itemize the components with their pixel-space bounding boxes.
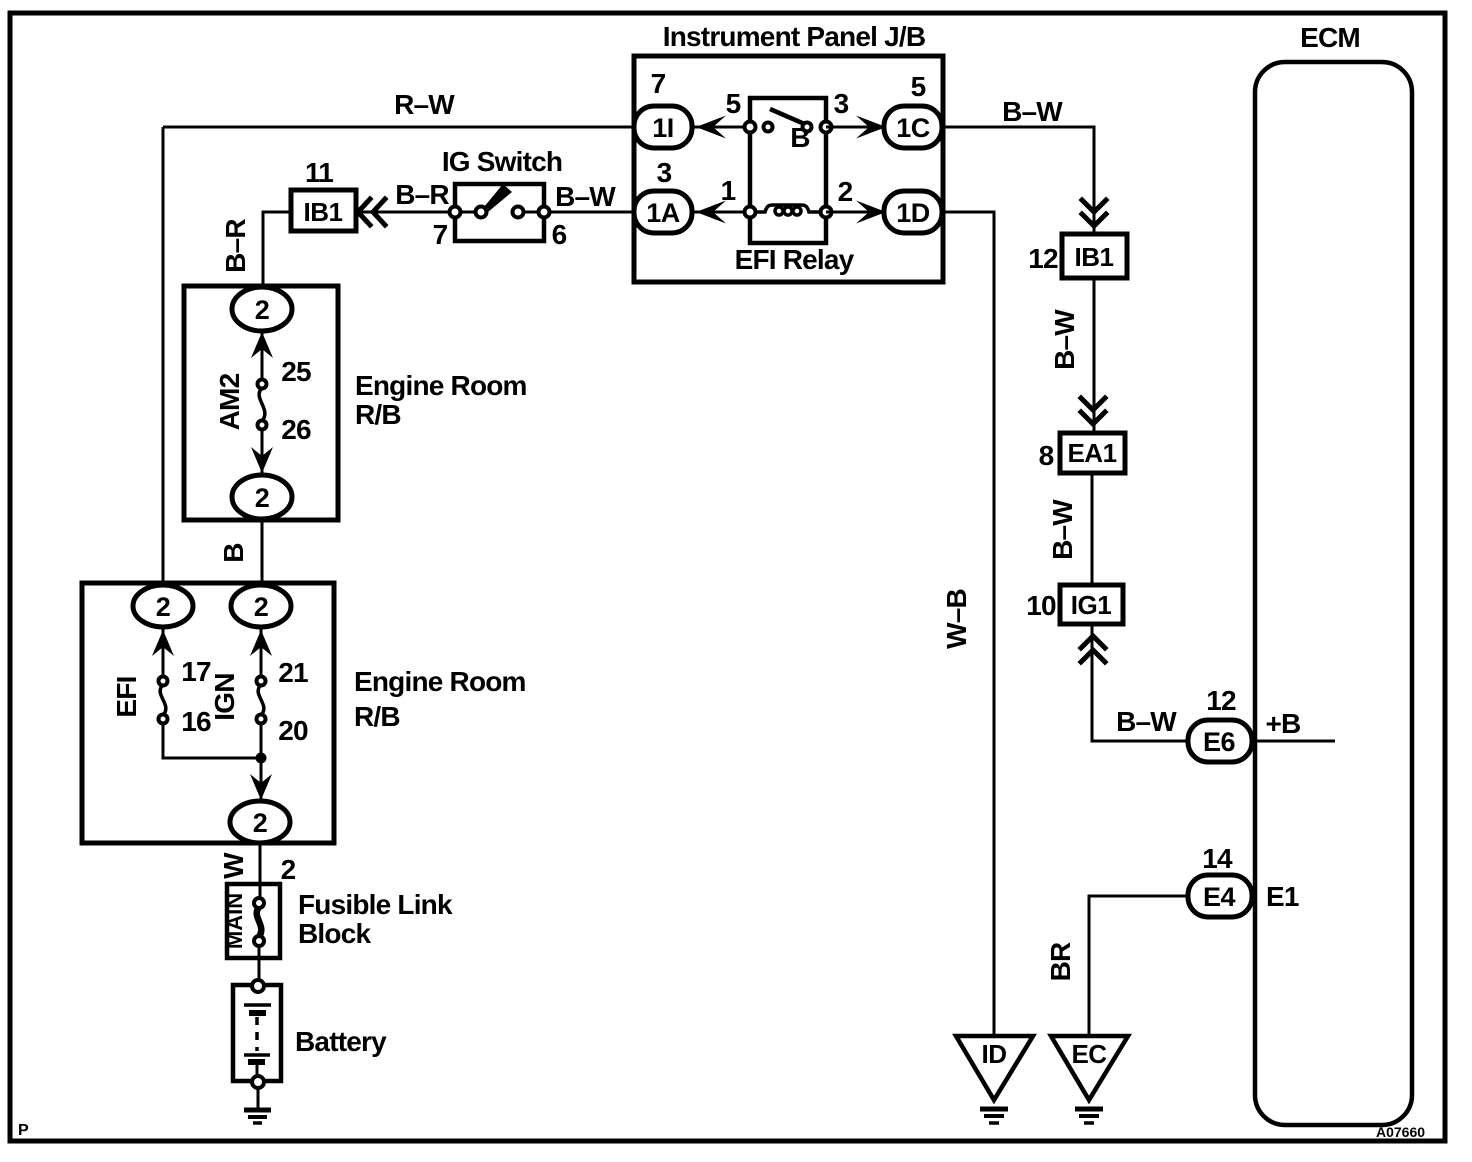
svg-text:8: 8 xyxy=(1039,440,1054,471)
wire left vertical (R-W to EFI fuse) xyxy=(162,127,165,587)
svg-text:W–B: W–B xyxy=(941,589,972,649)
chevrons down into EA1 xyxy=(1081,398,1105,410)
wire IB1 to IG switch xyxy=(356,211,455,214)
wire +B inside ECM xyxy=(1250,740,1335,743)
connector 2 (EFI top) xyxy=(133,585,193,627)
ECM body xyxy=(1255,62,1412,1125)
svg-text:7: 7 xyxy=(433,219,448,250)
wire 1I to relay xyxy=(692,126,750,129)
svg-text:E6: E6 xyxy=(1203,727,1236,757)
svg-text:B–W: B–W xyxy=(1049,309,1080,370)
wire IG switch to 1A xyxy=(544,211,634,214)
wire 1A to relay coil xyxy=(692,211,750,214)
svg-text:12: 12 xyxy=(1206,685,1236,716)
svg-text:6: 6 xyxy=(552,219,567,250)
solid arrow into 1C xyxy=(856,116,886,139)
arrow chevrons into IB1 xyxy=(358,199,370,225)
Engine Room R/B box (AM2) xyxy=(184,286,338,520)
svg-text:ECM: ECM xyxy=(1300,22,1360,53)
svg-text:E4: E4 xyxy=(1203,882,1236,912)
IG switch contact circles xyxy=(450,207,461,218)
svg-text:3: 3 xyxy=(834,88,849,119)
battery cell plates xyxy=(244,1003,271,1007)
wire EA1 to IG1 xyxy=(1091,473,1094,585)
wire relay to 1C xyxy=(826,126,884,129)
junction block IG1 xyxy=(1060,585,1123,624)
svg-text:B–W: B–W xyxy=(1116,706,1177,737)
IG switch box xyxy=(455,184,544,241)
IG switch internal wires xyxy=(455,211,481,214)
junction block EA1 xyxy=(1060,433,1125,473)
svg-text:2: 2 xyxy=(156,592,171,622)
solid arrow into 1A xyxy=(696,201,726,224)
solid arrow down (AM2) xyxy=(251,447,273,473)
svg-text:3: 3 xyxy=(657,157,672,188)
svg-text:+B: +B xyxy=(1266,708,1301,739)
wire relay coil to 1D xyxy=(826,211,884,214)
battery bottom terminal xyxy=(252,1076,264,1088)
svg-text:A07660: A07660 xyxy=(1376,1124,1425,1140)
solid arrow into 1D xyxy=(856,201,886,224)
svg-text:B–R: B–R xyxy=(395,179,449,210)
svg-text:B–W: B–W xyxy=(1002,96,1063,127)
svg-text:EFI: EFI xyxy=(111,676,142,717)
ground bars EC xyxy=(1075,1107,1103,1112)
svg-text:Block: Block xyxy=(298,918,371,949)
svg-text:2: 2 xyxy=(255,483,270,513)
svg-text:2: 2 xyxy=(838,176,853,207)
fuse AM2 xyxy=(258,380,267,389)
wire battery to ground xyxy=(257,1088,260,1108)
solid arrow up (IGN) xyxy=(250,630,272,656)
svg-text:EFI Relay: EFI Relay xyxy=(735,244,855,275)
svg-text:ID: ID xyxy=(982,1039,1007,1069)
svg-text:1A: 1A xyxy=(646,198,680,228)
svg-text:IB1: IB1 xyxy=(304,197,343,227)
svg-text:E1: E1 xyxy=(1266,881,1299,912)
Engine Room R/B box (EFI IGN) xyxy=(82,583,334,843)
svg-text:1: 1 xyxy=(721,175,736,206)
svg-text:Engine Room: Engine Room xyxy=(355,370,527,401)
svg-text:5: 5 xyxy=(911,71,926,102)
IG switch blade xyxy=(484,184,512,212)
svg-text:R/B: R/B xyxy=(355,399,401,430)
svg-text:26: 26 xyxy=(281,414,311,445)
ground bars ID xyxy=(980,1107,1008,1112)
battery top terminal xyxy=(252,980,264,992)
ground triangle ID xyxy=(956,1036,1033,1100)
connector 2 (AM2 bottom) xyxy=(232,475,292,519)
svg-text:IG1: IG1 xyxy=(1071,590,1111,620)
wire IB1 to EA1 xyxy=(1093,278,1096,433)
svg-text:25: 25 xyxy=(281,356,311,387)
junction block IB1 (cowl side) xyxy=(291,190,356,231)
svg-text:B–W: B–W xyxy=(1047,499,1078,560)
svg-text:14: 14 xyxy=(1202,843,1233,874)
svg-text:1C: 1C xyxy=(896,113,930,143)
svg-text:16: 16 xyxy=(181,706,211,737)
solid arrow up (AM2) xyxy=(251,332,273,358)
junction dot xyxy=(256,753,267,764)
svg-text:EA1: EA1 xyxy=(1067,438,1116,468)
svg-text:AM2: AM2 xyxy=(214,373,245,430)
solid arrow up (EFI) xyxy=(152,630,174,656)
svg-text:R–W: R–W xyxy=(394,89,455,120)
svg-text:Engine Room: Engine Room xyxy=(354,666,526,697)
wire EFI branch to junction xyxy=(163,723,261,758)
relay pin circles bottom xyxy=(745,207,756,218)
connector 2 (IGN top) xyxy=(231,585,291,627)
svg-text:W: W xyxy=(218,852,249,879)
connector 2 (lower box bottom) xyxy=(230,801,290,843)
svg-text:5: 5 xyxy=(726,88,741,119)
wire 1C to right IB1 xyxy=(942,127,1094,234)
svg-text:10: 10 xyxy=(1026,590,1056,621)
svg-text:12: 12 xyxy=(1028,243,1058,274)
battery box xyxy=(233,985,281,1081)
svg-text:IGN: IGN xyxy=(209,673,240,720)
connector 1A xyxy=(634,191,692,233)
svg-text:Instrument Panel J/B: Instrument Panel J/B xyxy=(663,21,926,52)
junction block IB1 (ECM side) xyxy=(1062,234,1127,278)
svg-text:7: 7 xyxy=(651,68,666,99)
wire E4 to EC ground (BR) xyxy=(1089,896,1188,1036)
ground bars battery xyxy=(244,1108,271,1113)
svg-text:IG Switch: IG Switch xyxy=(442,146,562,177)
svg-text:17: 17 xyxy=(181,656,211,687)
solid arrow down (to battery feed) xyxy=(250,774,272,800)
svg-text:20: 20 xyxy=(278,715,308,746)
wire EFI column xyxy=(162,627,165,677)
svg-text:Battery: Battery xyxy=(295,1026,387,1057)
wire fusible link to battery xyxy=(258,946,261,981)
fusible link MAIN xyxy=(254,898,264,908)
connector 2 (AM2 top) xyxy=(232,287,292,331)
svg-text:B: B xyxy=(790,122,809,153)
wire to fusible link block xyxy=(259,843,262,899)
ground triangle EC xyxy=(1051,1036,1128,1100)
svg-text:1I: 1I xyxy=(652,113,674,143)
svg-text:B–W: B–W xyxy=(555,181,616,212)
svg-text:B–R: B–R xyxy=(220,219,251,273)
fuse IGN xyxy=(257,677,266,686)
relay pin circles top xyxy=(745,122,756,133)
fusible link block box xyxy=(227,884,280,958)
relay contact circles xyxy=(764,123,773,132)
relay coil xyxy=(755,205,821,212)
svg-text:B: B xyxy=(218,543,249,562)
svg-text:21: 21 xyxy=(278,657,308,688)
svg-text:IB1: IB1 xyxy=(1075,242,1114,272)
connector 1D xyxy=(884,191,942,233)
wire IB1 exit down to Engine Room R/B xyxy=(263,212,291,289)
svg-text:2: 2 xyxy=(253,808,268,838)
solid arrow into 1I xyxy=(696,116,726,139)
svg-text:2: 2 xyxy=(281,854,296,885)
wire AM2 fuse to lower oval xyxy=(261,429,264,476)
EFI relay box xyxy=(750,98,826,243)
wire oval to AM2 fuse xyxy=(261,331,264,380)
svg-text:BR: BR xyxy=(1045,942,1076,981)
chevrons down into IB1 xyxy=(1082,200,1106,212)
connector E4 xyxy=(1188,875,1252,917)
svg-text:2: 2 xyxy=(254,592,269,622)
relay contact blade xyxy=(770,109,809,126)
chevrons up into IG1 xyxy=(1081,636,1105,648)
svg-text:P: P xyxy=(18,1122,29,1139)
wire IGN column xyxy=(260,627,263,677)
wire 1D to ID ground (W-B) xyxy=(942,212,994,1036)
svg-text:Fusible Link: Fusible Link xyxy=(298,889,453,920)
svg-text:1D: 1D xyxy=(896,198,930,228)
connector 1I xyxy=(634,106,692,148)
connector E6 xyxy=(1188,720,1252,762)
svg-text:MAIN: MAIN xyxy=(222,893,247,949)
connector 1C xyxy=(884,106,942,148)
svg-text:R/B: R/B xyxy=(354,701,400,732)
wire IGN to bottom oval xyxy=(260,723,263,803)
svg-text:2: 2 xyxy=(255,295,270,325)
svg-text:11: 11 xyxy=(305,157,333,188)
wire R-W horizontal xyxy=(163,126,634,129)
wire between R/B boxes xyxy=(261,519,264,587)
fuse EFI xyxy=(159,677,168,686)
wire IG1 to E6 xyxy=(1092,624,1188,741)
Instrument Panel J/B box xyxy=(634,56,943,282)
svg-text:EC: EC xyxy=(1071,1039,1107,1069)
